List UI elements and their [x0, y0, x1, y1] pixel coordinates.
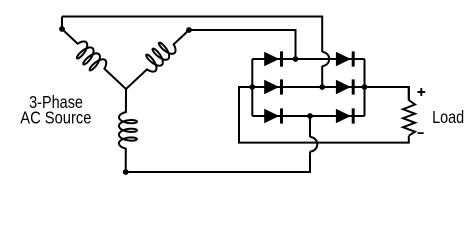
- inductor winding phase B (top-right): [126, 30, 189, 89]
- node phase A node: [59, 26, 65, 32]
- wire positive output to load: [365, 87, 409, 100]
- diode D6: [336, 79, 353, 94]
- wire phase A stub up from node: [61, 17, 63, 30]
- wire left anode bus: [251, 59, 253, 116]
- node anode bus junction: [249, 84, 255, 90]
- wire top rail phase A to bridge: [62, 17, 322, 53]
- diode D1: [264, 51, 281, 66]
- wire bottom rail phase C: [126, 152, 310, 173]
- wire bridge row 2: [252, 86, 364, 88]
- diode D4: [336, 51, 353, 66]
- node row 3 junction: [307, 113, 313, 119]
- wire right cathode bus: [364, 59, 366, 116]
- wire phase C up to row 3 junction: [309, 116, 311, 137]
- node row 2 junction: [319, 84, 325, 90]
- wire bridge row 1: [252, 58, 364, 60]
- label + polarity: [417, 88, 425, 96]
- node phase C node: [123, 169, 129, 175]
- label 3-Phase AC Source: [20, 92, 91, 128]
- wire phase B rail to row 1 junction: [189, 30, 296, 59]
- label - polarity: [417, 132, 423, 134]
- svg-text:Load: Load: [432, 107, 464, 127]
- svg-text:AC Source: AC Source: [20, 108, 91, 128]
- wire hop: phase A jumps over row 1: [322, 52, 329, 66]
- diode D2: [336, 108, 353, 123]
- diode D5: [264, 108, 281, 123]
- wire bridge row 3: [252, 115, 364, 117]
- node phase B node: [186, 27, 192, 33]
- wire phase A down to row 2 junction: [321, 66, 323, 87]
- inductor winding phase A (top-left): [62, 29, 126, 89]
- node row 1 junction: [293, 56, 299, 62]
- inductor winding phase C (middle vertical): [119, 89, 137, 172]
- diode D3: [264, 79, 281, 94]
- resistor Load: [403, 87, 415, 136]
- node cathode bus junction: [362, 84, 368, 90]
- wire hop: phase C jumps over negative rail: [310, 137, 317, 152]
- wire negative rail from anode bus under bridge to load: [239, 87, 409, 143]
